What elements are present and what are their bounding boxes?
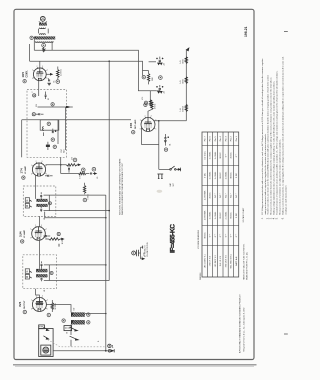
svg-text:4: 4 [47,70,48,72]
svg-text:0 DC: 0 DC [236,173,238,178]
terminal B T3 [25,274,31,279]
oscillator coil L2 [43,127,44,136]
registration mark top right [284,30,288,32]
resistor R17 box [39,325,45,329]
svg-text:B: B [26,204,28,208]
svg-text:1U4: 1U4 [18,231,22,237]
svg-text:1T4: 1T4 [20,168,24,174]
capacitor C8 audio [164,134,169,146]
osc inner box [40,120,59,130]
svg-text:1.: 1. [262,217,264,219]
svg-text:1R5: 1R5 [21,72,25,78]
svg-text:50MA: 50MA [182,59,185,64]
capacitor C9B electrolytic [156,85,163,93]
label osc adj [61,148,65,153]
resistor R13 [45,232,63,246]
svg-text:90 DC: 90 DC [231,172,233,179]
svg-text:Pin 3: Pin 3 [225,135,227,141]
output transformer T4 primary [71,312,87,316]
voltage chart text [204,135,237,268]
svg-text:Pin 6: Pin 6 [210,135,212,141]
svg-text:Battery voltage maintained at: Battery voltage maintained at rated valu… [273,80,276,214]
wire T3 down [36,289,40,298]
svg-text:NC *: NC * [220,193,222,198]
svg-text:OUTPUT: OUTPUT [24,300,26,309]
label R7 [180,59,184,64]
label V2 1S5 DET [129,119,137,134]
wire V2 plate feed [149,91,151,102]
svg-text:1.4 B&L: 1.4 B&L [215,171,217,179]
wire T2 bottom tap [45,212,107,219]
svg-text:2: 2 [36,296,37,298]
wire V5 plate [46,305,71,313]
wire V1 cathode down [38,81,40,96]
label R13 note [144,242,149,257]
ref circle T4b [87,321,90,324]
IF transformer T3 box [23,255,57,289]
svg-text:VOLUME CONTROL: VOLUME CONTROL [147,242,149,257]
tube V3 1T4 IF amp [31,161,47,176]
registration mark bottom right [284,333,288,335]
svg-text:VOLTAGE CHART: VOLTAGE CHART [242,207,245,223]
capacitor C13 T2 [40,207,42,212]
wire antenna right down [51,41,53,50]
svg-text:A PHOTOFACT STANDARD NOTATION: A PHOTOFACT STANDARD NOTATION SCHEMATIC … [239,294,242,353]
ref circle R4 [144,103,147,106]
phone jack J1 [157,174,163,179]
svg-text:0 **: 0 ** [231,234,233,238]
svg-text:0 **: 0 ** [225,234,227,238]
svg-text:BAT.: BAT. [169,182,172,186]
svg-text:I.F. AMP.: I.F. AMP. [24,165,27,174]
resistor R10 [66,158,80,166]
label below chart [199,272,202,280]
svg-text:1.0T RMS: 1.0T RMS [204,210,206,220]
chart footnote [243,243,249,280]
svg-text:WHEN PLUG IS INSERTED THE BATT: WHEN PLUG IS INSERTED THE BATTERIES ARE … [121,162,124,215]
IF T2 secondary [37,204,50,207]
svg-text:wiring and measured with no si: wiring and measured with no signal input… [264,133,267,214]
svg-text:10: 10 [48,98,50,100]
ref circle T2 [48,202,51,205]
page bottom edge shadow [13,365,257,367]
svg-text:3.: 3. [271,217,273,219]
svg-text:3.3 MEG: 3.3 MEG [60,69,62,76]
ref circle R5 [142,76,145,79]
wire T4 sec down [70,325,72,336]
svg-text:0 **: 0 ** [215,234,217,238]
wire T3 out bottom [44,265,109,281]
speaker frame [39,329,53,357]
label crystal [142,252,146,257]
IF T3 primary [36,269,49,272]
svg-text:SEL. RECT. M-1: SEL. RECT. M-1 [231,253,233,269]
svg-text:5: 5 [46,173,47,175]
svg-text:45 DC: 45 DC [231,152,233,159]
svg-text:Pin 4: Pin 4 [220,135,222,141]
ref circle C6 [53,145,56,148]
capacitor C6 padder [46,142,50,150]
label jack [169,182,175,186]
wire C9 feed [156,90,160,92]
label V3 1T4 IF [20,165,28,179]
svg-text:2: 2 [35,225,36,227]
svg-text:RATINGS: RATINGS [199,272,202,280]
svg-text:I.F. AMP.: I.F. AMP. [23,229,26,238]
wire AVC line [22,119,131,121]
switch S1 [170,166,181,171]
oscillator coil assembly box [27,90,66,158]
svg-text:NC *: NC * [231,193,233,198]
svg-text:2.4 B&L: 2.4 B&L [225,211,227,219]
svg-text:6.: 6. [282,217,284,219]
svg-text:0 DC: 0 DC [236,213,238,218]
wire T1 right leg [47,29,49,34]
tube V2 1S5 detector [140,116,157,132]
capacitor C2 at V1 [47,78,51,85]
svg-text:90 DC: 90 DC [204,232,206,239]
svg-text:.05: .05 [97,177,99,179]
ref circle T3 [50,272,53,275]
svg-text:1R5 CONV. V-1: 1R5 CONV. V-1 [204,253,206,268]
svg-text:ADJ: ADJ [63,149,66,152]
diode arrow spk2 [43,336,48,339]
svg-text:SWITCH S1 SHOWN IN BATTERY OPE: SWITCH S1 SHOWN IN BATTERY OPERATING POS… [119,158,122,215]
ref circle R15 [47,313,50,316]
label chart side [197,229,200,249]
svg-text:86 DC: 86 DC [231,212,233,219]
capacitor C10 [45,175,53,177]
svg-text:DC Voltage measurements taken: DC Voltage measurements taken with vacuu… [261,58,264,215]
svg-text:Pin 1: Pin 1 [236,135,238,141]
svg-text:1.4 B&L: 1.4 B&L [210,151,212,159]
node bus junction [108,60,110,62]
svg-text:1: 1 [31,165,32,167]
svg-text:1S5: 1S5 [129,123,133,129]
svg-text:0 **: 0 ** [236,154,238,158]
svg-text:Socket connections are shown a: Socket connections are shown as in the s… [267,74,270,214]
resistor R9 filament [185,104,187,111]
crystal diode CR1 [132,246,144,260]
terminal ref A [30,36,35,39]
output transformer T4 secondary [71,320,87,324]
ref circle R1 [56,80,60,84]
resistor R5 filter [147,71,149,85]
svg-text:1: 1 [32,70,33,72]
svg-text:1.4 B&L: 1.4 B&L [210,171,212,179]
wire V3 cathode down [34,176,36,199]
label R9 [180,105,184,111]
svg-text:NC *: NC * [215,193,217,198]
sheet number 196-21 [244,26,248,37]
svg-text:0 DC: 0 DC [204,173,206,178]
svg-text:Pin 5: Pin 5 [215,135,217,141]
resistor R15 grid [51,300,53,312]
svg-text:6: 6 [32,78,33,80]
wire filament top arrow [186,48,189,121]
svg-text:85 DC: 85 DC [220,212,222,219]
capacitor C4 osc [32,113,43,116]
wire T2 out top [44,194,106,196]
svg-text:47K: 47K [142,96,144,100]
antenna coil L1 secondary [34,34,56,43]
label V4 1U4 [18,229,26,243]
svg-text:6: 6 [30,238,31,240]
component value labels [32,63,171,342]
svg-text:1S5 DET. V-3: 1S5 DET. V-3 [215,254,217,267]
ref circle T4a [87,313,90,316]
svg-text:+40: +40 [164,63,166,66]
copyright note [239,294,246,353]
schematic sheet border [14,9,254,359]
diode arrow spk1 [43,327,48,330]
svg-text:A: A [26,198,28,202]
IF transformer T2 box [23,186,56,216]
svg-text:Measured values are taken from: Measured values are taken from tube sock… [270,77,273,215]
svg-text:NC *: NC * [236,193,238,198]
svg-text:2: 2 [144,116,145,118]
loop antenna A1 [39,16,47,22]
svg-text:VOLTAGE READINGS: VOLTAGE READINGS [197,229,200,249]
svg-text:33K: 33K [36,103,38,107]
svg-text:1U4 I.F. V-4: 1U4 I.F. V-4 [220,255,222,266]
battery terminal B1 [105,344,114,352]
trimmer capacitor C1 [42,47,45,52]
label V1 1R5 CONV [21,70,29,83]
ref circle C3 [33,94,36,97]
terminal A T3 [25,269,31,274]
ref circle C17 [62,319,65,322]
tube V4 1U4 IF amp [30,225,46,240]
diode arrow T4b [70,336,79,346]
svg-text:B-: B- [98,340,100,342]
svg-text:1: 1 [140,120,141,122]
svg-text:MEASURED FROM PIN 1, V1. (B-): MEASURED FROM PIN 1, V1. (B-) [245,251,248,280]
svg-text:0 **: 0 ** [210,234,212,238]
svg-text:6: 6 [140,129,141,131]
svg-text:BATT. A-B: BATT. A-B [235,256,238,266]
svg-text:3V4 OUT. V-5: 3V4 OUT. V-5 [225,254,227,267]
label note switch [119,158,125,215]
svg-text:5: 5 [47,309,48,311]
svg-text:Nominal tolerance of component: Nominal tolerance of component values ma… [276,70,279,214]
svg-text:1.4 B&L: 1.4 B&L [215,211,217,219]
svg-text:1.4 B&L: 1.4 B&L [210,211,212,219]
mech link dashed [48,340,105,347]
resistor R12 screen [83,183,85,195]
ref circle L2 [51,103,54,106]
svg-text:47K: 47K [72,156,74,160]
svg-text:SET: SET [173,182,175,186]
svg-text:0 **: 0 ** [236,234,238,238]
resistor R11 [61,168,90,175]
svg-text:10 MEG: 10 MEG [55,303,57,310]
wire V3 plate right [46,158,67,174]
svg-text:DET.-AVC: DET.-AVC [134,119,137,129]
wire filter top [143,62,157,71]
svg-text:5: 5 [47,78,48,80]
svg-text:+40: +40 [164,91,166,94]
svg-text:readings on each measurement.: readings on each measurement. [284,185,287,215]
svg-text:1 MEG: 1 MEG [88,194,90,200]
label R8 [180,79,184,84]
svg-text:68: 68 [66,332,68,334]
wire T1 left leg [38,29,40,34]
paper stain [157,190,163,193]
svg-text:1200: 1200 [152,77,154,81]
wire switch left [159,168,170,170]
svg-text:1T4 I.F. V-2: 1T4 I.F. V-2 [210,255,212,266]
wire osc tap [38,106,73,108]
svg-text:4.: 4. [274,217,276,219]
svg-text:.01: .01 [170,144,172,146]
voltage chart grid [202,132,239,277]
svg-text:1: 1 [112,345,114,349]
svg-text:1.3 B&L: 1.3 B&L [225,171,227,179]
svg-text:50MA: 50MA [182,79,185,84]
svg-text:1: 1 [31,300,32,302]
ref circle C1 [42,43,46,47]
svg-text:6: 6 [31,309,32,311]
label V5 3V4 [18,300,26,314]
wire jack drop [158,121,160,170]
resistor R6 [144,100,152,107]
battery plug P1 [106,349,114,352]
svg-text:4: 4 [47,300,48,302]
terminal B T2 [25,203,31,208]
resistor R4 plate [150,102,153,110]
svg-text:5.: 5. [277,217,279,219]
IF T2 primary [37,199,50,202]
wire V4 top [38,216,40,227]
wire osc grid left [29,44,31,61]
wire osc inner right2 [65,107,67,150]
capacitor C3 osc [45,92,47,100]
svg-text:.01: .01 [44,290,46,292]
svg-text:Pin 7: Pin 7 [204,135,206,141]
wire V4 down [38,240,40,269]
tube V1 1R5 converter [32,66,48,81]
diode arrow T4a [70,327,78,331]
svg-text:1 MEG: 1 MEG [155,103,157,109]
label IF frequency [170,224,177,253]
terminal A T2 [25,198,31,203]
wire V1 grid up [39,61,41,68]
svg-text:B: B [26,275,28,279]
wire V1 plate right [46,74,52,76]
svg-text:0 **: 0 ** [225,154,227,158]
svg-text:88 DC: 88 DC [220,172,222,179]
svg-text:196-21: 196-21 [244,26,248,37]
svg-text:3: 3 [41,225,42,227]
node jack [158,120,160,122]
svg-text:1.4 B&L: 1.4 B&L [215,151,217,159]
resistor R7 filament [185,57,187,64]
svg-text:5: 5 [155,129,156,131]
svg-text:.05: .05 [54,81,56,83]
wire bus B plus top [34,50,156,91]
svg-text:560: 560 [74,308,76,311]
svg-text:90 DC: 90 DC [220,152,222,159]
wire speaker bottom [53,350,106,352]
svg-text:100MA: 100MA [182,105,185,111]
wire antenna left down [33,40,35,51]
svg-text:3: 3 [42,296,43,298]
svg-text:Battery current measurements,: Battery current measurements, no signal … [281,56,284,214]
svg-text:3: 3 [41,161,42,163]
ref circle C9 [159,76,163,80]
capacitor C16 T3 [41,277,43,281]
svg-text:1: 1 [142,257,144,258]
notes list [261,56,288,219]
wire V2 cathode down [142,128,159,144]
svg-text:CONV.: CONV. [26,70,28,77]
svg-text:Pin 2: Pin 2 [231,135,233,141]
svg-text:4: 4 [46,229,47,231]
svg-text:A: A [26,270,28,274]
svg-text:45 DC: 45 DC [210,192,212,199]
antenna coil L1 primary [39,23,49,29]
resistor R16 box [64,326,72,331]
svg-text:1: 1 [30,229,31,231]
ref circle C8 [164,148,167,151]
svg-text:NC *: NC * [225,193,227,198]
node T3 top [105,264,107,266]
resistor R1 at V1 [57,67,60,80]
svg-text:6: 6 [31,173,32,175]
wire T4 Bplus [85,313,107,315]
capacitor C15 T3 [41,261,43,269]
svg-text:.01: .01 [44,218,46,220]
wire B bus [105,195,107,351]
wire V2 plate right [155,120,186,122]
wire T3 out top [44,264,106,266]
svg-text:TAKEN WITH VACUUM TUBE VOLTMET: TAKEN WITH VACUUM TUBE VOLTMETER. [243,243,246,280]
IF T3 secondary [36,274,49,277]
tube V5 3V4 output [31,296,48,312]
capacitor C14 [43,235,50,237]
wire bus AVC top [30,61,143,75]
svg-text:Measured values of resistance: Measured values of resistance are subjec… [279,139,282,215]
svg-text:10 MEG: 10 MEG [62,237,64,244]
ref circle R12 [83,198,87,202]
svg-text:3: 3 [151,116,152,118]
label chart top note [242,207,245,223]
wire R4 to V2 [148,109,152,117]
speaker SP1 [41,345,51,355]
capacitor C9A electrolytic [156,57,163,91]
svg-text:3V4: 3V4 [18,301,22,307]
svg-text:3: 3 [42,66,43,68]
svg-text:IF=455-KC: IF=455-KC [170,224,177,253]
svg-text:1 MEG: 1 MEG [79,173,81,179]
svg-text:C: C [32,91,34,93]
svg-text:2: 2 [36,66,37,68]
wire osc inner right [57,120,59,144]
resistor R8 filament [185,77,187,84]
wire T2 out bottom [44,195,110,211]
svg-text:0 **: 0 ** [220,234,222,238]
svg-text:2: 2 [36,161,37,163]
svg-text:1.4T RMS: 1.4T RMS [204,190,206,200]
wire filament bus drop [108,61,110,280]
capacitor C10b [68,165,70,173]
svg-text:©Howard W. Sams & Co., Inc., I: ©Howard W. Sams & Co., Inc., Indianapoli… [242,308,245,352]
capacitor C11 [91,167,97,174]
wire AVC drop left [21,120,23,158]
capacitor C5 osc [52,129,57,133]
capacitor C12 T2 [40,192,42,199]
